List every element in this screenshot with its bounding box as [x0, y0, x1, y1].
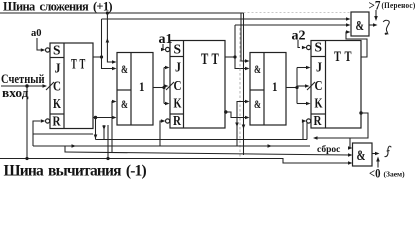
wire: Q output of DD3 to riser	[225, 56, 235, 58]
junction: Q-bar of DD7	[359, 111, 362, 114]
wire: Q2 riser up to y25 line and down into AND of DD4	[235, 25, 246, 69]
svg-text:K: K	[315, 97, 323, 112]
wire: inverse output of DD1 to lower AND input	[93, 117, 113, 119]
wire: a2 to S input of DD7	[298, 40, 300, 48]
svg-text:S: S	[53, 44, 61, 59]
inversion bubble on S input of DD7	[307, 45, 311, 49]
svg-text:Шина сложения (+1): Шина сложения (+1)	[3, 0, 112, 14]
wire: DD3 J/C/K feed riser	[164, 66, 170, 106]
svg-text:(Перенос): (Перенос)	[382, 1, 416, 10]
wire: Q output of DD1 to riser	[93, 56, 102, 58]
svg-text:a0: a0	[31, 28, 42, 39]
svg-text:J: J	[55, 62, 61, 77]
dynamic input slash on C of DD7	[307, 82, 315, 90]
junction: addition bus tap at x107.4	[106, 11, 109, 14]
svg-text:вход: вход	[2, 86, 29, 100]
borrow gate DD6	[353, 143, 373, 166]
AND-OR block DD4	[250, 53, 286, 126]
mid-wire up arrow on bus drop	[106, 38, 110, 43]
AND-OR block DD2	[117, 53, 153, 126]
wire: OR output of DD2 block to DD3 inputs	[153, 87, 164, 89]
inversion bubble on S input of DD1	[46, 48, 50, 52]
wire: subtraction bus (-1) horizontal line with step to gate DD6	[0, 159, 350, 164]
inversion bubble on R input of DD3	[166, 119, 170, 123]
wire: riser from line L4 into lower AND input of block DD2	[112, 102, 113, 153]
wire: a1 to S input of DD3	[163, 44, 164, 50]
svg-text:Т: Т	[345, 49, 352, 65]
svg-text:K: K	[53, 97, 61, 112]
carry gate DD5	[351, 12, 369, 36]
wire: line L4 into DD6	[65, 152, 350, 155]
wire: R input of DD1 from riser	[33, 121, 41, 146]
wire: OR output of DD4 to DD7 inputs	[286, 87, 297, 89]
wire: descender from DD2 block bottom to subtraction bus	[107, 125, 109, 159]
wire: descender from DD2 block bottom to L2	[103, 125, 105, 140]
svg-text:>7: >7	[369, 0, 381, 13]
svg-text:&: &	[254, 97, 261, 111]
label arrow for carry output	[375, 10, 377, 17]
svg-text:S: S	[174, 43, 182, 58]
flip-flop DD7 body	[311, 41, 361, 130]
wire: reset line with left arrow	[316, 137, 350, 139]
svg-text:C: C	[53, 80, 61, 95]
wire: riser from L3 to lower AND input of DD4	[237, 102, 246, 147]
svg-text:1: 1	[272, 79, 278, 94]
dynamic input slash on C of DD3	[166, 82, 174, 90]
svg-text:Т: Т	[71, 57, 77, 73]
svg-text:Т: Т	[212, 51, 220, 68]
wire: end drop of addition bus running down to line L4	[243, 13, 245, 155]
wire: line L2	[96, 139, 308, 141]
svg-text:Шина вычитания (-1): Шина вычитания (-1)	[4, 163, 147, 180]
wire: R input of DD3 from riser	[160, 121, 162, 146]
svg-text:Счетный: Счетный	[1, 72, 45, 86]
mid-wire right arrows on L3	[72, 144, 77, 148]
svg-text:S: S	[315, 41, 323, 56]
wire: long line y25 from Q2 to carry gate DD5	[235, 24, 348, 26]
wire: drop from addition bus at x241 to AND input of DD4	[241, 13, 246, 61]
svg-text:C: C	[174, 79, 182, 94]
svg-text:&: &	[121, 62, 128, 76]
svg-text:&: &	[254, 62, 261, 76]
svg-text:R: R	[53, 115, 62, 130]
junction: Q-bar of DD3	[224, 110, 227, 113]
mid-wire down arrow on long drop	[242, 125, 246, 130]
junction on subtraction bus at x108	[106, 157, 109, 160]
svg-text:R: R	[173, 114, 182, 129]
junction on DD7 feed riser	[295, 86, 298, 89]
wire: inverse output of DD7 routed down to borrow gate DD6	[349, 113, 368, 148]
inversion bubble on S input of DD3	[166, 47, 170, 51]
svg-text:сброс: сброс	[317, 144, 340, 155]
wire: short stub at end of line L2	[306, 122, 308, 140]
wire: R input of DD7 from riser	[303, 121, 304, 140]
wire: DD7 J/C/K feed riser	[297, 66, 311, 106]
inversion bubble on R input of DD1	[46, 119, 50, 123]
wire: branch from count line down to subtraction bus	[26, 86, 28, 159]
svg-text:&: &	[357, 148, 366, 164]
wire: Q output of DD7 routed over flip-flop to carry gate DD5	[346, 32, 367, 57]
arrow into gate DD6 lower input	[348, 161, 353, 165]
flip-flop DD3 body	[170, 41, 225, 130]
wire: L4 left riser jog from L3	[64, 146, 66, 153]
wire: Q-bar DD1 drop to line L2	[95, 118, 97, 140]
svg-text:C: C	[315, 79, 323, 94]
wire: faint continuation of addition bus	[244, 12, 352, 14]
wire: count input line to C of DD1	[1, 85, 46, 87]
junction: Q1 on riser	[100, 55, 103, 58]
svg-text:K: K	[174, 97, 182, 112]
wire: addition bus (+1) horizontal line	[0, 12, 244, 14]
junction: count line branch point	[25, 84, 28, 87]
junction on DD3 feed riser	[162, 86, 165, 89]
flip-flop DD1 body	[50, 43, 93, 130]
svg-text:&: &	[356, 19, 365, 34]
mid-wire down arrow on riser	[235, 123, 239, 128]
svg-text:1: 1	[139, 79, 145, 94]
junction: Q-bar of DD1	[94, 116, 97, 119]
wire: line L3	[33, 145, 310, 147]
wire: drop from addition bus to AND gate input of DD2 block	[107, 13, 113, 62]
junction on subtraction bus at x27	[25, 157, 28, 160]
junction Q2	[233, 55, 236, 58]
wire: long line y19 from Q1 to carry gate DD5	[102, 18, 348, 20]
wire: a0 to S input of DD1	[37, 38, 42, 50]
svg-text:Т: Т	[80, 57, 86, 73]
svg-text:&: &	[121, 97, 128, 111]
wire: output of DD6	[372, 153, 376, 155]
wire: faint dashed vertical in middle bundle	[239, 28, 241, 158]
svg-text:R: R	[314, 114, 323, 129]
carry pulse symbol	[383, 20, 389, 34]
svg-text:J: J	[316, 61, 322, 76]
wire: riser x101.5 from y19 line down to AND input	[102, 19, 114, 69]
borrow pulse symbol	[385, 146, 392, 157]
svg-text:Т: Т	[334, 49, 341, 65]
svg-text:<0: <0	[369, 166, 381, 181]
dynamic input slash on C of DD1	[46, 82, 54, 90]
label arrow for borrow output	[377, 160, 379, 168]
wire: inverse output of DD3 to lower AND input of DD4	[225, 112, 246, 118]
wire: output of DD5	[369, 24, 374, 26]
svg-text:Т: Т	[201, 51, 209, 68]
wire: line L1 under DD1	[33, 133, 93, 135]
svg-text:J: J	[175, 61, 181, 76]
svg-text:(Заем): (Заем)	[384, 170, 406, 179]
inversion bubble on R input of DD7	[307, 119, 311, 123]
